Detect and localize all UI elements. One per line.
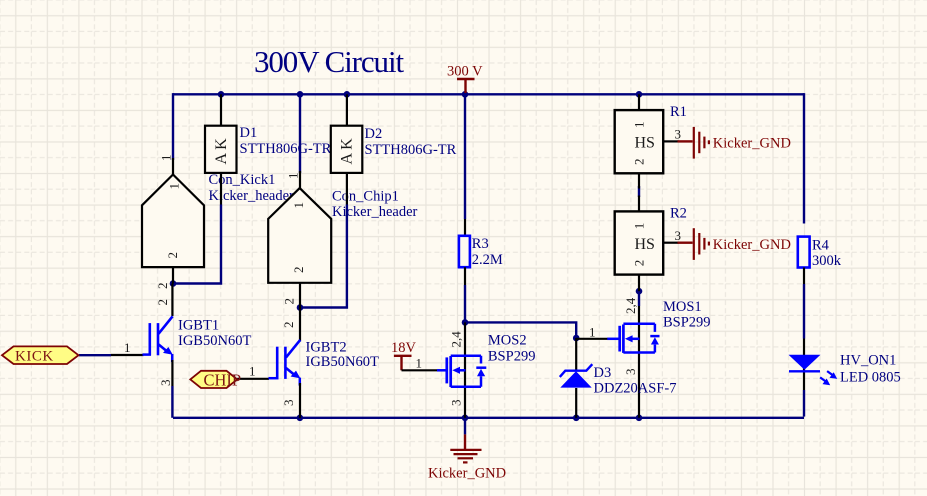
svg-text:1: 1 bbox=[158, 155, 173, 162]
junction: bottom bus / MOS2 source / ground stub bbox=[462, 415, 469, 422]
wire: bottom bus stub to Kicker_GND bbox=[464, 418, 466, 435]
MOS2 channel bar bbox=[449, 356, 452, 387]
power port Kicker_GND bottom ground bbox=[428, 434, 506, 481]
svg-text:STTH806G-TR: STTH806G-TR bbox=[240, 141, 332, 157]
IGBT2 emitter stroke bbox=[286, 368, 295, 375]
Kicker_GND bar 3 bbox=[703, 238, 705, 250]
wire: 18V to MOS2 gate bbox=[402, 369, 438, 371]
svg-text:Con_Kick1: Con_Kick1 bbox=[209, 172, 276, 188]
Kicker_GND bar 3 bbox=[703, 137, 705, 149]
junction: top bus / R1 pin 1 bbox=[636, 91, 643, 98]
svg-text:BSP299: BSP299 bbox=[488, 348, 536, 364]
HV_ON1 emission arrow 1 head bbox=[830, 372, 838, 379]
svg-text:KICK: KICK bbox=[15, 349, 54, 365]
svg-text:A K: A K bbox=[213, 138, 230, 165]
svg-text:Kicker_header: Kicker_header bbox=[332, 204, 418, 220]
IGBT2 gate bar bbox=[276, 347, 279, 379]
MOS2 drain-source pin line bbox=[464, 322, 466, 417]
port KICK bbox=[2, 346, 79, 364]
svg-text:Kicker_GND: Kicker_GND bbox=[428, 466, 506, 482]
MOS1 body diode cathode bar bbox=[650, 335, 659, 338]
svg-text:STTH806G-TR: STTH806G-TR bbox=[365, 142, 457, 158]
Con_Chip1 pin 1 bbox=[299, 171, 301, 189]
junction: node A (Con_Kick1 pin2 / D1 / IGBT1 collector) bbox=[170, 280, 177, 287]
svg-text:1: 1 bbox=[291, 202, 306, 209]
HV_ON1 cathode bar bbox=[789, 370, 820, 372]
IGBT2 emitter lead bbox=[299, 378, 302, 386]
MOS1 source stub bbox=[623, 351, 655, 354]
HV_ON1 pin line bbox=[803, 339, 805, 391]
junction: bottom bus / IGBT2 emitter bbox=[297, 415, 304, 422]
IGBT2 collector pin bbox=[299, 308, 301, 342]
IGBT2 emitter pin bbox=[299, 383, 301, 418]
R3 body bbox=[459, 236, 470, 267]
R1 pin 2 bbox=[638, 173, 640, 188]
svg-text:2: 2 bbox=[282, 298, 297, 305]
IGBT1 gate lead bbox=[143, 353, 152, 356]
resistor R1 HS bbox=[615, 94, 687, 188]
diode D1 STTH806G-TR bbox=[205, 94, 332, 204]
ground bar 3 bbox=[458, 457, 474, 459]
svg-text:2: 2 bbox=[155, 299, 170, 306]
svg-text:2: 2 bbox=[155, 283, 170, 290]
HV_ON1 triangle bbox=[789, 355, 821, 370]
wire: top bus down to R3 bbox=[464, 94, 466, 219]
wire: D1 anode down and left to node A bbox=[173, 205, 221, 284]
power port Kicker_GND at R1 pin 3 bbox=[678, 127, 791, 159]
wire: top bus down to Con_Kick1 pin 1 bbox=[172, 93, 174, 160]
connector Con_Chip1 Kicker_header bbox=[268, 171, 417, 308]
D3 cathode pin bbox=[575, 338, 577, 371]
D2 anode pin bbox=[346, 173, 348, 205]
junction: node B (Con_Chip1 pin2 / D2 / IGBT2 collector) bbox=[297, 304, 304, 311]
IGBT1 emitter lead bbox=[171, 354, 174, 362]
power port 300_V bbox=[447, 64, 483, 94]
MOS1 body stub bbox=[629, 338, 640, 341]
junction: top bus / Con_Chip1 drop bbox=[297, 91, 304, 98]
svg-text:18V: 18V bbox=[391, 340, 417, 356]
svg-text:D1: D1 bbox=[240, 125, 258, 141]
resistor R3 2.2M bbox=[459, 219, 503, 285]
svg-text:MOS1: MOS1 bbox=[663, 299, 702, 315]
wire: R4 bottom to LED anode bbox=[803, 284, 805, 339]
svg-text:3: 3 bbox=[281, 400, 296, 407]
junction: top bus / 300_V / R3 bbox=[462, 91, 469, 98]
IGBT1 gate bar bbox=[149, 323, 152, 355]
R1 body bbox=[615, 110, 664, 173]
R4 pin 2 bbox=[803, 268, 805, 285]
IGBT2 collector stroke bbox=[286, 340, 300, 358]
wire: top bus down to Con_Chip1 pin 1 bbox=[299, 94, 301, 173]
svg-text:1: 1 bbox=[167, 183, 182, 190]
MOS1 gate bar bbox=[618, 326, 621, 352]
svg-text:2: 2 bbox=[632, 159, 647, 166]
transistor MOS1 BSP299 bbox=[576, 297, 710, 418]
svg-text:1: 1 bbox=[124, 340, 131, 355]
transistor MOS2 BSP299 bbox=[437, 322, 535, 417]
wire: MOS2 drain node right and down to MOS1 gate node bbox=[465, 322, 576, 338]
Con_Kick1 body bbox=[142, 175, 204, 268]
junction: top bus / D2 cathode bbox=[344, 91, 351, 98]
Con_Chip1 body bbox=[268, 188, 331, 283]
MOS1 drain-source pin line bbox=[638, 306, 640, 418]
junction: MOS1 gate / D3 cathode node bbox=[573, 335, 580, 342]
Kicker_GND bar 1 bbox=[693, 127, 695, 159]
svg-text:2: 2 bbox=[632, 260, 647, 267]
MOS1 body diode triangle bbox=[651, 337, 659, 344]
R2 pin 1 bbox=[638, 196, 640, 212]
MOS2 gate bar bbox=[445, 357, 448, 383]
wire: R1 pin2 to R2 pin1 bbox=[638, 186, 640, 197]
IGBT1 emitter stroke bbox=[159, 344, 168, 351]
svg-text:IGBT1: IGBT1 bbox=[178, 318, 219, 334]
wire: top bus down right side to R4 bbox=[803, 93, 805, 223]
svg-text:IGB50N60T: IGB50N60T bbox=[306, 354, 379, 370]
HV_ON1 emission arrow 2 shaft bbox=[820, 377, 826, 382]
svg-text:3: 3 bbox=[675, 127, 682, 142]
D2 body bbox=[331, 126, 363, 173]
ground stem bbox=[464, 434, 466, 449]
wire: bottom ground bus bbox=[173, 417, 804, 419]
18V stem bbox=[400, 356, 402, 371]
Con_Kick1 pin 1 bbox=[172, 158, 174, 175]
junction: top bus / D1 cathode bbox=[218, 91, 225, 98]
MOS1 body arrow bbox=[625, 335, 633, 342]
R3 pin 1 bbox=[464, 219, 466, 236]
R2 pin 3 bbox=[663, 242, 678, 244]
transistor IGBT2 IGB50N60T bbox=[237, 308, 379, 418]
diode D2 STTH806G-TR bbox=[331, 94, 457, 204]
svg-text:R3: R3 bbox=[472, 236, 489, 252]
300_V stem bbox=[464, 79, 466, 93]
MOS2 body arrow bbox=[452, 367, 460, 374]
svg-text:HV_ON1: HV_ON1 bbox=[840, 353, 896, 369]
D3 anode pin bbox=[575, 388, 577, 418]
svg-text:LED 0805: LED 0805 bbox=[840, 370, 901, 386]
MOS1 gate lead bbox=[607, 338, 619, 341]
D1 body bbox=[205, 126, 237, 173]
svg-text:3: 3 bbox=[675, 228, 682, 243]
Con_Chip1 pin 2 bbox=[299, 283, 301, 308]
HV_ON1 emission arrow 2 head bbox=[823, 379, 831, 386]
ground bar 1 bbox=[450, 449, 481, 451]
D1 cathode pin bbox=[220, 94, 222, 125]
Kicker_GND bar 1 bbox=[693, 228, 695, 260]
svg-text:MOS2: MOS2 bbox=[488, 333, 527, 349]
svg-text:300 V: 300 V bbox=[447, 64, 483, 80]
MOS2 body diode cathode bar bbox=[476, 366, 486, 369]
svg-text:R1: R1 bbox=[670, 104, 687, 120]
IGBT1 emitter pin bbox=[171, 360, 173, 386]
MOS1 drain stub bbox=[623, 323, 655, 326]
IGBT1 base bar bbox=[157, 323, 160, 355]
wire: R3 bottom to MOS2 drain node bbox=[464, 285, 466, 322]
IGBT1 collector stroke bbox=[159, 316, 173, 334]
D1 anode pin bbox=[220, 173, 222, 205]
svg-text:2,4: 2,4 bbox=[623, 297, 638, 314]
svg-text:HS: HS bbox=[635, 236, 655, 253]
R2 pin 2 bbox=[638, 275, 640, 292]
Kicker_GND bar 2 bbox=[698, 132, 700, 154]
MOS2 body diode triangle bbox=[477, 369, 485, 376]
diode D3 DDZ20ASF-7 zener bbox=[560, 338, 677, 418]
MOS1 gate pin bbox=[576, 338, 608, 340]
wire: KICK port to IGBT1 gate bbox=[79, 354, 111, 356]
svg-text:IGB50N60T: IGB50N60T bbox=[178, 333, 251, 349]
R1 pin 3 bbox=[663, 140, 678, 142]
R4 body bbox=[798, 237, 810, 268]
svg-text:2,4: 2,4 bbox=[449, 331, 464, 348]
svg-text:1: 1 bbox=[632, 223, 647, 230]
svg-text:1: 1 bbox=[286, 173, 301, 180]
MOS2 drain stub bbox=[451, 354, 481, 357]
svg-text:2: 2 bbox=[281, 322, 296, 329]
MOS2 gate lead bbox=[437, 369, 447, 372]
svg-text:1: 1 bbox=[632, 122, 647, 129]
svg-text:Kicker_GND: Kicker_GND bbox=[713, 237, 791, 253]
svg-text:3: 3 bbox=[158, 380, 173, 387]
Kicker_GND bar 4 bbox=[708, 140, 710, 144]
Kicker_GND lead bbox=[678, 140, 693, 142]
IGBT1 emitter arrow bbox=[163, 347, 173, 355]
R1 pin 1 bbox=[638, 94, 640, 110]
junction: bottom bus / MOS1 source bbox=[636, 415, 643, 422]
D2 cathode pin bbox=[346, 94, 348, 125]
R3 pin 2 bbox=[464, 267, 466, 285]
svg-text:300V Circuit: 300V Circuit bbox=[254, 44, 404, 79]
IGBT2 base bar bbox=[284, 347, 287, 379]
D3 triangle bbox=[560, 371, 591, 387]
transistor IGBT1 IGB50N60T bbox=[111, 284, 251, 387]
IGBT1 collector pin bbox=[171, 284, 173, 317]
svg-text:HS: HS bbox=[635, 135, 655, 152]
Con_Kick1 pin 2 bbox=[172, 267, 174, 283]
svg-text:2: 2 bbox=[165, 252, 180, 259]
svg-text:1: 1 bbox=[589, 325, 596, 340]
svg-text:300k: 300k bbox=[812, 253, 842, 269]
junction: R2 pin2 / MOS1 drain bbox=[636, 288, 643, 295]
MOS1 channel bar bbox=[622, 325, 625, 353]
IGBT2 emitter arrow bbox=[291, 371, 301, 379]
junction: R3 / MOS2 drain node bbox=[462, 319, 469, 326]
connector Con_Kick1 Kicker_header bbox=[142, 155, 294, 290]
IGBT2 gate pin bbox=[237, 378, 269, 380]
wire: R2 bottom to MOS1 drain bbox=[638, 291, 640, 306]
svg-text:DDZ20ASF-7: DDZ20ASF-7 bbox=[594, 381, 677, 397]
MOS1 body diode line bbox=[654, 324, 657, 353]
svg-text:1: 1 bbox=[249, 364, 256, 379]
HV_ON1 emission arrow 1 shaft bbox=[827, 371, 833, 376]
svg-text:BSP299: BSP299 bbox=[663, 315, 711, 331]
svg-text:1: 1 bbox=[416, 356, 423, 371]
D3 zener cathode bar bbox=[560, 364, 593, 377]
Kicker_GND bar 2 bbox=[698, 233, 700, 255]
svg-text:R2: R2 bbox=[670, 205, 687, 221]
wire: top 300V bus bbox=[173, 93, 804, 95]
power port Kicker_GND at R2 pin 3 bbox=[678, 228, 791, 260]
300_V bar bbox=[457, 78, 475, 80]
port CHIP bbox=[190, 371, 241, 390]
MOS2 body diode line bbox=[480, 356, 483, 387]
ground bar 4 bbox=[463, 461, 468, 463]
IGBT1 gate pin bbox=[111, 354, 144, 356]
svg-text:3: 3 bbox=[449, 400, 464, 407]
wire: IGBT1 emitter to bottom bus bbox=[171, 386, 173, 418]
svg-text:R4: R4 bbox=[812, 238, 830, 254]
18V bar bbox=[394, 355, 412, 357]
LED HV_ON1 LED 0805 bbox=[789, 339, 901, 391]
ground bar 2 bbox=[454, 453, 478, 455]
junction: bottom bus / D3 anode bbox=[573, 415, 580, 422]
svg-text:D2: D2 bbox=[365, 126, 383, 142]
Kicker_GND lead bbox=[678, 241, 693, 243]
wire: D2 anode down and left to node B bbox=[300, 205, 347, 308]
svg-text:D3: D3 bbox=[594, 365, 612, 381]
wire: LED cathode to bottom bus bbox=[803, 390, 805, 417]
MOS2 source stub bbox=[451, 386, 481, 389]
MOS2 body stub bbox=[456, 369, 466, 372]
R2 body bbox=[615, 211, 664, 274]
svg-text:A K: A K bbox=[339, 138, 356, 165]
svg-text:Con_Chip1: Con_Chip1 bbox=[332, 189, 399, 205]
svg-text:CHIP: CHIP bbox=[204, 371, 242, 390]
power port 18V bbox=[391, 340, 437, 371]
svg-text:3: 3 bbox=[623, 369, 638, 376]
svg-text:Kicker_GND: Kicker_GND bbox=[713, 136, 791, 152]
svg-text:2: 2 bbox=[291, 267, 306, 274]
Kicker_GND bar 4 bbox=[708, 242, 710, 246]
svg-text:2.2M: 2.2M bbox=[472, 252, 503, 268]
IGBT2 gate lead bbox=[269, 377, 279, 380]
resistor R4 300k bbox=[798, 237, 842, 284]
resistor R2 HS bbox=[615, 196, 687, 292]
